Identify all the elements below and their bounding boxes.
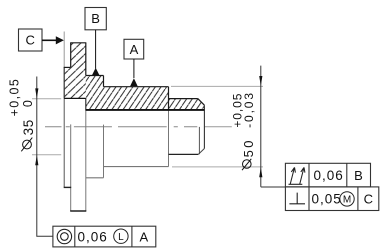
wire: flange left face upper — [70, 43, 72, 68]
wire: dia50 right face upper — [168, 87, 170, 110]
wire: flange left face lower — [70, 124, 72, 211]
wire: datum A leader — [133, 59, 135, 78]
svg-text:C: C — [26, 33, 35, 48]
wire: right cylinder bottom silhouette — [169, 153, 199, 155]
wire: centerline extension right of part — [205, 126, 232, 128]
wire: boss top surface — [64, 66, 71, 68]
dia50 arrow bottom — [259, 167, 262, 177]
wire: bore line small thick — [86, 109, 205, 111]
svg-text:35: 35 — [21, 119, 36, 135]
section hatch: dia-50 cylinder column — [104, 87, 169, 110]
wire: bore step face — [85, 98, 87, 110]
wire: end face vertical — [203, 105, 205, 148]
svg-text:0,06: 0,06 — [314, 168, 344, 183]
datum C triangle — [56, 36, 64, 44]
wire: right cylinder top surface — [169, 98, 198, 100]
datum B flag box — [85, 8, 106, 30]
wire: flange right face upper — [85, 43, 87, 76]
wire: datum B leader — [95, 30, 97, 69]
FCF total runout frame — [285, 163, 370, 187]
node: datum C extension line above part — [63, 32, 65, 68]
section hatch: datum-B cylinder column — [86, 76, 104, 110]
FCF perpendicularity frame — [285, 187, 378, 211]
svg-text:-0,03: -0,03 — [242, 91, 256, 128]
wire: boss left face section edge — [63, 67, 65, 98]
svg-text:B: B — [354, 168, 363, 183]
datum B triangle — [92, 68, 100, 76]
svg-text:A: A — [139, 229, 148, 244]
wire: B-cyl right face upper — [103, 76, 105, 87]
svg-text:0,05: 0,05 — [312, 192, 342, 207]
perpendicularity symbol — [289, 193, 305, 204]
section hatch: boss column — [64, 67, 71, 98]
wire: bottom chamfer — [198, 149, 204, 155]
svg-text:A: A — [130, 42, 139, 57]
svg-text:0,06: 0,06 — [78, 229, 108, 244]
label: dia50 diameter symbol — [243, 160, 252, 169]
wire: B-cyl bottom silhouette — [86, 177, 104, 179]
wire: boss bottom silhouette — [64, 186, 71, 188]
wire: dia50 bottom silhouette — [104, 166, 169, 168]
total runout symbol — [289, 183, 303, 185]
dia35 arrow bottom — [35, 155, 38, 165]
wire: dia50 extension line bottom — [172, 166, 263, 168]
wire: dia35 dimension line — [37, 77, 53, 237]
svg-text:+0,05: +0,05 — [7, 78, 21, 117]
wire: boss left face vertical — [63, 67, 65, 187]
section hatch: flange column — [71, 43, 86, 99]
wire: top chamfer — [198, 99, 205, 106]
datum A flag box — [124, 39, 144, 59]
datum A triangle — [130, 78, 138, 86]
svg-text:50: 50 — [241, 138, 256, 157]
wire: bore line large (dia35) — [64, 97, 86, 99]
wire: B-cyl right face lower — [103, 125, 105, 178]
modifier circle M — [340, 192, 354, 206]
wire: dia50 dimension line and leader to frames — [261, 66, 286, 187]
FCF concentricity frame — [53, 226, 156, 247]
datum C flag box — [19, 29, 43, 51]
svg-text:L: L — [118, 232, 124, 243]
wire: flange top surface — [70, 42, 86, 44]
dia35 arrow top — [35, 88, 38, 98]
modifier circle L — [114, 229, 128, 243]
label: dia35 diameter symbol — [23, 140, 32, 149]
svg-text:M: M — [343, 195, 351, 206]
wire: datum B step surface — [86, 75, 104, 77]
svg-text:0: 0 — [21, 100, 35, 107]
wire: dia35 extension line bottom — [32, 154, 61, 156]
wire: flange bottom silhouette — [70, 210, 86, 212]
wire: centerline dash-dot — [45, 126, 197, 128]
wire: dia50 top surface — [104, 86, 169, 88]
wire: flange right face lower — [85, 111, 87, 212]
wire: dia50 extension line top — [171, 85, 263, 87]
svg-text:B: B — [91, 11, 100, 26]
wire: chamfer circle edge bottom view — [198, 127, 200, 154]
wire: dia35 extension line top — [32, 98, 61, 100]
concentricity symbol — [57, 229, 71, 243]
svg-text:C: C — [364, 192, 373, 207]
section hatch: right cylinder column with chamfer — [169, 99, 205, 110]
wire: dia50 right face lower — [168, 110, 170, 167]
dia50 arrow top — [259, 76, 262, 86]
wire: datum C leader — [42, 39, 57, 41]
